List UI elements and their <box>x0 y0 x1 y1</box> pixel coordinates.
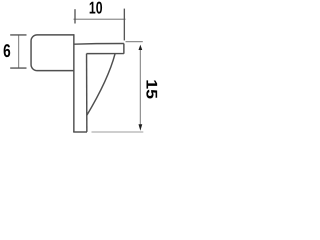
dimension 6: bottom tick <box>10 67 26 69</box>
wire: arm top edge <box>74 43 124 46</box>
dimension 6: stem <box>18 36 20 68</box>
shelf-support pin body (rounded peg, side view) <box>31 35 74 71</box>
wire: arm underside <box>87 53 124 55</box>
wire: gusset diagonal brace edge <box>87 54 115 116</box>
dimension 6: top tick <box>10 34 26 36</box>
dimension 15: bottom arrowhead <box>139 124 143 130</box>
dimension 10: line <box>74 18 126 20</box>
wire: arm right tip edge <box>123 44 125 54</box>
dimension 15: top arrowhead <box>139 45 143 50</box>
svg-text:6: 6 <box>3 40 11 61</box>
wire: inner vertical edge (bracket post right side) <box>86 54 88 132</box>
wire: main vertical edge (pin right side / bracket back) <box>73 34 75 132</box>
wire: bracket bottom edge <box>73 131 87 133</box>
dimension 15: bottom extension line <box>92 131 144 133</box>
dimension 10: right tick / extension line <box>123 9 125 41</box>
dimension 10: left tick <box>74 9 76 23</box>
dimension 15: top extension line <box>126 41 143 43</box>
svg-text:10: 10 <box>89 0 103 18</box>
svg-text:15: 15 <box>143 79 158 99</box>
dimension 15: vertical line <box>139 49 141 125</box>
